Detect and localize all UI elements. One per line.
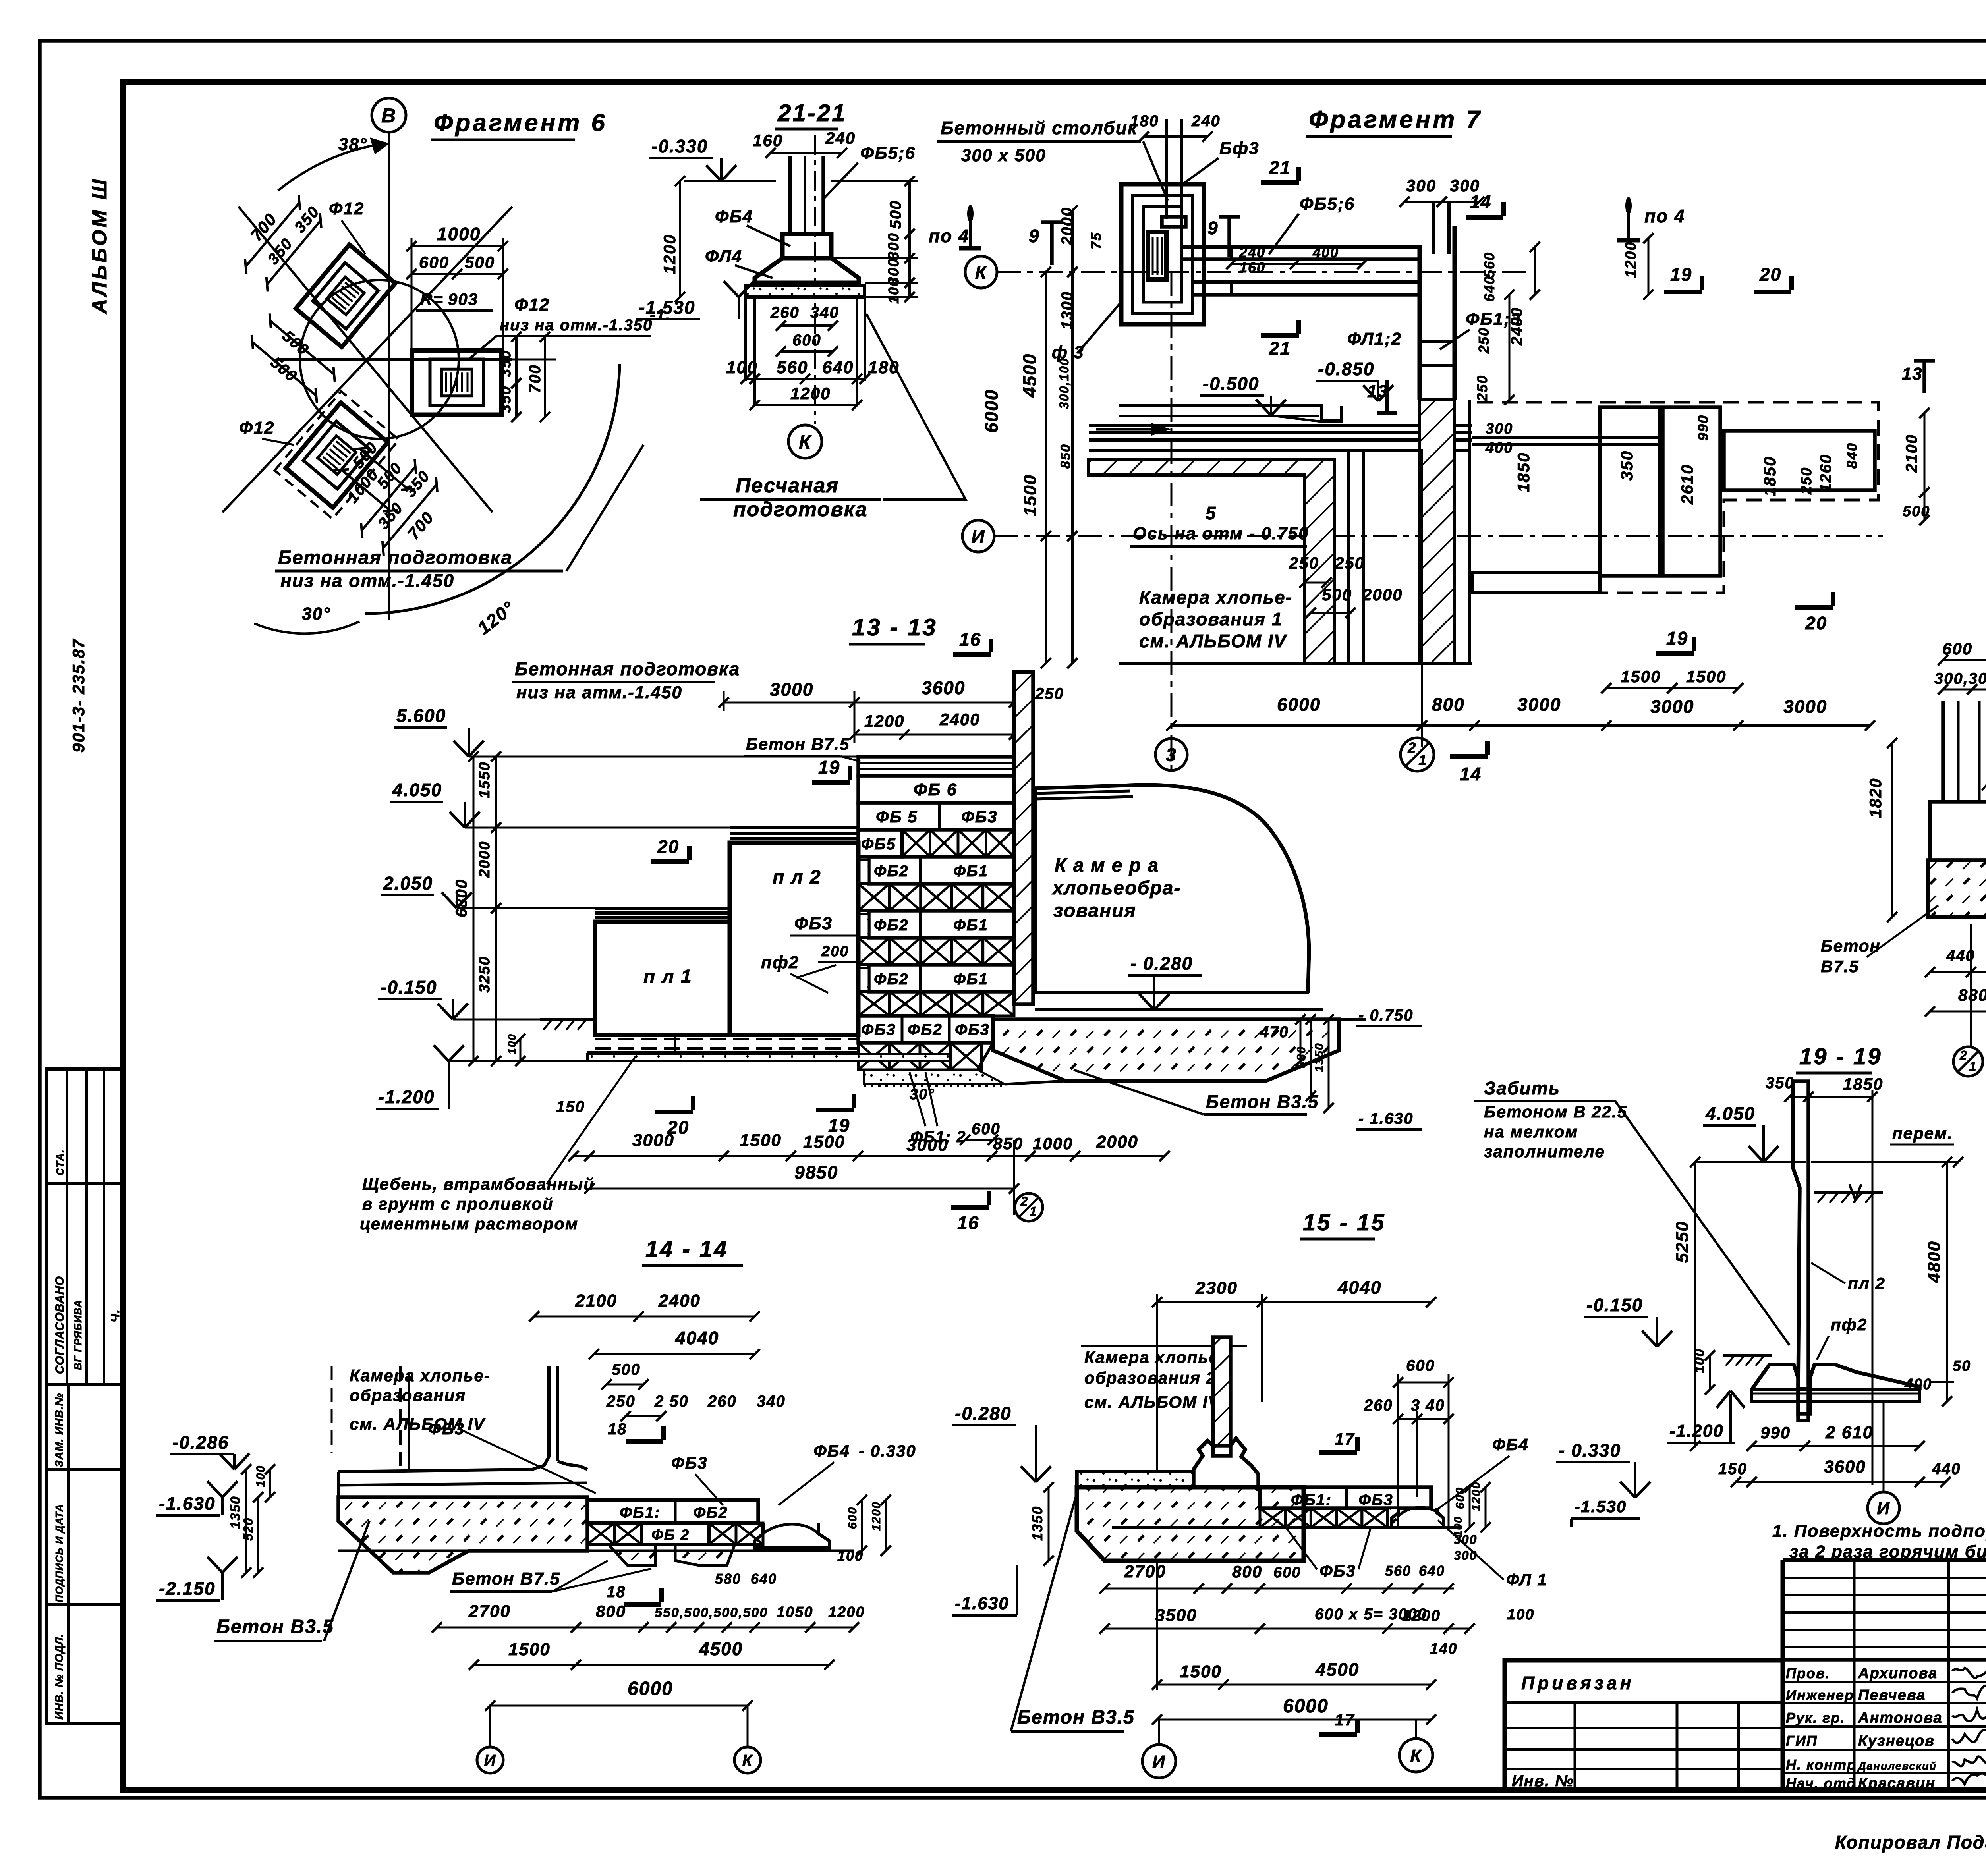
svg-text:Бетоном В 22.5: Бетоном В 22.5: [1484, 1102, 1627, 1121]
svg-text:340: 340: [810, 304, 839, 321]
svg-text:2: 2: [1407, 739, 1416, 756]
fragment 6 dim 1000/600/500 above pad B: [411, 245, 503, 247]
svg-text:100: 100: [1452, 1516, 1464, 1537]
svg-text:1200: 1200: [1470, 1481, 1483, 1511]
svg-text:150: 150: [1718, 1460, 1747, 1478]
svg-text:250: 250: [1289, 554, 1319, 572]
21-21 block FB4: [782, 234, 831, 258]
fragment 7 flow arrow: [1096, 428, 1160, 431]
svg-text:560: 560: [1385, 1563, 1411, 1579]
13-13 block FB6: [858, 776, 1014, 803]
svg-text:- 0.750: - 0.750: [1358, 1007, 1414, 1024]
svg-text:100: 100: [1507, 1606, 1534, 1623]
svg-text:240: 240: [1239, 244, 1265, 261]
svg-text:800: 800: [596, 1602, 626, 1621]
fragment 6 pad foundation A (rotated): [296, 245, 396, 347]
13-13 left wall PL2: [730, 843, 858, 1035]
svg-text:ФБ1; 2: ФБ1; 2: [910, 1128, 966, 1146]
13-13 left vertical dims: [495, 757, 497, 828]
13-13 right vertical dims 880/1350: [1310, 1019, 1312, 1096]
svg-text:5.600: 5.600: [396, 705, 446, 726]
svg-text:см. АЛЬБОМ IV: см. АЛЬБОМ IV: [1084, 1393, 1220, 1411]
svg-text:ФБ4: ФБ4: [813, 1442, 850, 1460]
svg-text:ФБ5: ФБ5: [861, 836, 896, 853]
svg-text:700: 700: [247, 210, 280, 245]
svg-text:150: 150: [556, 1098, 585, 1116]
svg-text:2300: 2300: [1195, 1278, 1238, 1298]
svg-text:К: К: [799, 432, 812, 453]
svg-text:И: И: [1877, 1499, 1890, 1518]
svg-text:ФЛ 1: ФЛ 1: [1506, 1570, 1547, 1589]
svg-text:3250: 3250: [476, 956, 493, 993]
13-13 ground line right: [993, 1018, 1366, 1021]
axis circle B: [372, 98, 406, 132]
svg-text:ПОДПИСЬ И ДАТА: ПОДПИСЬ И ДАТА: [53, 1504, 65, 1602]
21-21 column shaft: [788, 156, 792, 234]
21-21 axis circle K: [788, 425, 822, 458]
fragment 6 radius circle arc: [300, 280, 459, 439]
21-21 centerline: [814, 135, 816, 424]
18-18 left dim 1820: [1891, 743, 1893, 917]
svg-text:Привязан: Привязан: [1521, 1673, 1634, 1693]
svg-text:700: 700: [526, 364, 544, 393]
svg-text:903: 903: [448, 290, 478, 309]
svg-text:Камера хлопье-: Камера хлопье-: [1084, 1348, 1225, 1366]
18-18 axis circle 2/1: [1953, 1047, 1983, 1076]
15-15 left slab dotted band: [1077, 1471, 1194, 1487]
svg-text:1200: 1200: [828, 1604, 865, 1621]
svg-text:2000: 2000: [476, 841, 493, 878]
svg-text:1200: 1200: [790, 384, 831, 403]
svg-text:ФБ3: ФБ3: [794, 914, 833, 933]
15-15 central pillar hatched: [1213, 1337, 1231, 1456]
fragment 7 long slab band: [1089, 424, 1472, 427]
svg-text:ФБ2: ФБ2: [874, 917, 909, 934]
svg-text:9850: 9850: [794, 1162, 838, 1183]
svg-text:В: В: [381, 104, 396, 127]
marker po 4 right: [1627, 199, 1630, 240]
svg-text:350: 350: [497, 350, 514, 377]
svg-text:Ч.: Ч.: [109, 1309, 122, 1322]
svg-text:600: 600: [419, 253, 449, 272]
svg-text:250: 250: [1476, 327, 1492, 354]
fragment 6 pad foundation B: [412, 350, 502, 415]
svg-text:21: 21: [1269, 338, 1291, 359]
svg-text:2: 2: [1020, 1194, 1029, 1208]
svg-text:ФБ3: ФБ3: [955, 1021, 990, 1038]
svg-text:640: 640: [751, 1571, 777, 1587]
21-21 leader triangle to note: [866, 314, 966, 500]
svg-text:1200: 1200: [660, 234, 679, 274]
svg-text:-1.630: -1.630: [955, 1594, 1009, 1613]
svg-text:19 - 19: 19 - 19: [1799, 1044, 1882, 1069]
svg-text:4040: 4040: [675, 1328, 719, 1348]
svg-text:2100: 2100: [1903, 434, 1920, 473]
svg-text:1350: 1350: [1029, 1506, 1045, 1541]
svg-text:250: 250: [1334, 554, 1365, 572]
svg-text:300: 300: [1454, 1548, 1477, 1563]
18-18 hatched block: [1928, 860, 1986, 917]
svg-text:Кузнецов: Кузнецов: [1858, 1733, 1935, 1749]
13-13 block FB5 + X row: [858, 830, 902, 857]
svg-text:Ось на отм - 0.750: Ось на отм - 0.750: [1133, 524, 1309, 543]
fragment 7 flag 21 top: [1261, 180, 1299, 185]
svg-text:2: 2: [1959, 1048, 1968, 1063]
svg-text:75: 75: [1088, 232, 1104, 249]
svg-text:13 - 13: 13 - 13: [852, 614, 937, 641]
svg-text:1850: 1850: [1514, 452, 1533, 492]
svg-text:580: 580: [715, 1571, 741, 1587]
svg-text:1500: 1500: [1621, 667, 1661, 686]
14-14 lower hatched pockets: [609, 1544, 655, 1565]
svg-text:14: 14: [1460, 764, 1482, 784]
svg-text:240: 240: [825, 129, 856, 147]
fragment 6 dim chain upper-left 700/350/350/500/500: [189, 184, 413, 406]
svg-text:ФБ2: ФБ2: [874, 863, 909, 880]
svg-text:2700: 2700: [1124, 1562, 1166, 1581]
fragment 6 vertical dims 350/350/700 right of pad B: [515, 337, 518, 383]
svg-text:2000: 2000: [1362, 585, 1403, 604]
svg-text:350: 350: [497, 386, 514, 413]
13-13 flag 16 bottom + 2/1 circle: [951, 1205, 989, 1210]
svg-text:3: 3: [1166, 745, 1177, 765]
svg-text:ФБ 5: ФБ 5: [876, 807, 918, 826]
svg-text:К а м е р а: К а м е р а: [1055, 855, 1159, 876]
14-14 base line: [338, 1550, 854, 1552]
svg-text:ФБ3: ФБ3: [671, 1453, 708, 1472]
15-15 pedestal mound: [1194, 1438, 1258, 1487]
svg-text:п л 2: п л 2: [773, 867, 821, 888]
svg-text:ИНВ. № ПОДЛ.: ИНВ. № ПОДЛ.: [53, 1633, 65, 1720]
svg-text:-0.500: -0.500: [1203, 373, 1259, 394]
15-15 right rotated dims: [1469, 1487, 1471, 1527]
fragment 7 flags 19/20 top-right: [1664, 290, 1702, 294]
fragment 6 dim chain 500/500/1000 diagonal: [326, 435, 420, 528]
fragment 7 dim 1500/1500: [1606, 687, 1672, 689]
svg-text:1200: 1200: [864, 712, 904, 730]
fragment 7 axis I line: [994, 535, 1883, 537]
svg-text:6000: 6000: [1283, 1696, 1329, 1717]
svg-text:ФБ 2: ФБ 2: [651, 1527, 690, 1544]
svg-text:Щебень, втрамбованный: Щебень, втрамбованный: [362, 1175, 595, 1193]
svg-text:1550: 1550: [476, 761, 493, 798]
13-13 X block row: [858, 938, 889, 965]
svg-text:ФБ 6: ФБ 6: [914, 780, 957, 799]
svg-text:1200: 1200: [1402, 1607, 1441, 1625]
fragment 7 flag 14 bottom: [1450, 754, 1488, 759]
svg-text:Бетон В3.5: Бетон В3.5: [1206, 1091, 1319, 1112]
13-13 flags 19/20 mid: [812, 780, 850, 785]
svg-text:19: 19: [818, 757, 840, 778]
svg-text:300,100: 300,100: [1057, 357, 1071, 409]
svg-text:3600: 3600: [922, 677, 965, 698]
fragment 7 concrete column top: [1165, 119, 1168, 219]
svg-text:низ на отм.-1.350: низ на отм.-1.350: [500, 317, 653, 334]
svg-text:Ф12: Ф12: [239, 418, 274, 438]
svg-text:19: 19: [1670, 264, 1692, 285]
svg-text:20: 20: [1759, 264, 1781, 285]
15-15 small hatch bit: [1387, 1508, 1398, 1527]
svg-text:4.050: 4.050: [1705, 1103, 1755, 1124]
svg-text:Инженер: Инженер: [1786, 1687, 1854, 1703]
svg-text:2.050: 2.050: [383, 873, 433, 894]
svg-text:250: 250: [1798, 467, 1815, 495]
fragment 7 L-shaped hatched duct band: [1089, 460, 1334, 663]
svg-text:1500: 1500: [508, 1640, 551, 1659]
18-18 mid block: [1930, 802, 1986, 860]
svg-text:550,500,500,500: 550,500,500,500: [655, 1605, 768, 1620]
13-13 flag 16 top: [953, 652, 991, 657]
svg-text:ФБ1:: ФБ1:: [620, 1504, 661, 1521]
13-13 blocks FB2 FB1: [869, 911, 1014, 938]
svg-text:Ф12: Ф12: [514, 295, 550, 315]
svg-text:Камера хлопье-: Камера хлопье-: [1139, 587, 1292, 608]
svg-text:350: 350: [1766, 1074, 1795, 1092]
svg-text:Архипова: Архипова: [1858, 1665, 1938, 1682]
svg-text:К: К: [1410, 1746, 1422, 1766]
fragment 7 axis K circle: [965, 256, 997, 288]
15-15 dim 1350 rotated: [1048, 1487, 1050, 1561]
svg-text:п л 1: п л 1: [643, 966, 692, 987]
svg-text:20: 20: [657, 836, 679, 857]
svg-text:300: 300: [1486, 421, 1513, 437]
svg-text:Антонова: Антонова: [1858, 1710, 1943, 1726]
21-21 trapezoid FL4: [755, 258, 859, 283]
19-19 ground hatch right of wall: [1814, 1191, 1883, 1194]
svg-text:1500: 1500: [1180, 1662, 1222, 1681]
svg-text:600: 600: [1406, 1357, 1435, 1374]
13-13 blocks FB5 FB3: [858, 803, 1014, 830]
svg-text:880: 880: [1958, 986, 1986, 1004]
svg-text:-1.530: -1.530: [1575, 1497, 1627, 1516]
fragment 7 mid slab step: [1119, 406, 1342, 421]
svg-text:1: 1: [1418, 752, 1427, 768]
svg-text:Бетонный столбик: Бетонный столбик: [941, 118, 1138, 138]
svg-text:840: 840: [1844, 442, 1860, 469]
svg-text:5: 5: [1206, 503, 1217, 523]
19-19 ground hatch left of footing: [1723, 1354, 1772, 1357]
svg-text:Певчева: Певчева: [1858, 1687, 1926, 1704]
14-14 ground mass hatched: [338, 1497, 587, 1573]
svg-text:160: 160: [1239, 259, 1265, 276]
svg-text:9: 9: [1207, 218, 1219, 238]
svg-text:1: 1: [1030, 1204, 1037, 1219]
13-13 blocks FB2 FB1: [869, 965, 1014, 992]
svg-text:И: И: [971, 526, 985, 547]
13-13 flags 20/19 bottom: [655, 1110, 693, 1114]
svg-text:ФЛ1;2: ФЛ1;2: [1347, 329, 1402, 349]
13-13 wall right hatched (vertical): [1014, 672, 1033, 1004]
21-21 pit dims 260/340/600: [744, 297, 747, 381]
14-14 right footing FL1: [755, 1523, 829, 1548]
fragment 7 axis I circle: [962, 520, 994, 552]
svg-text:20: 20: [1805, 613, 1827, 633]
svg-text:ФБ5;6: ФБ5;6: [860, 143, 916, 163]
svg-text:300,300: 300,300: [1934, 670, 1986, 687]
svg-text:-1.630: -1.630: [159, 1493, 215, 1514]
svg-text:пф2: пф2: [1831, 1315, 1867, 1334]
svg-text:500: 500: [465, 253, 495, 272]
svg-text:13: 13: [1902, 364, 1923, 384]
fragment 6 vertical axis line: [388, 132, 390, 620]
13-13 ground hatched mass right: [993, 1019, 1339, 1081]
svg-text:-0.330: -0.330: [651, 136, 708, 156]
svg-text:В7.5: В7.5: [1821, 957, 1859, 976]
svg-text:640: 640: [1419, 1563, 1445, 1579]
svg-text:2 610: 2 610: [1825, 1423, 1873, 1442]
svg-text:хлопьеобра-: хлопьеобра-: [1051, 878, 1181, 899]
svg-text:6800: 6800: [453, 879, 470, 917]
svg-text:700: 700: [404, 508, 438, 543]
svg-text:2400: 2400: [939, 710, 980, 729]
svg-text:3000: 3000: [770, 679, 813, 700]
svg-text:600: 600: [1454, 1487, 1467, 1509]
svg-text:Бф3: Бф3: [1219, 139, 1260, 158]
svg-text:К: К: [742, 1752, 753, 1769]
13-13 top beton band: [858, 757, 1014, 776]
svg-text:3000: 3000: [1517, 694, 1561, 715]
svg-text:СОГЛАСОВАНО: СОГЛАСОВАНО: [53, 1276, 66, 1374]
svg-text:ЗАМ. ИНВ.№: ЗАМ. ИНВ.№: [53, 1393, 65, 1467]
svg-text:3000: 3000: [1783, 696, 1827, 717]
title block: row lines: [1783, 1658, 1986, 1662]
svg-text:4800: 4800: [1924, 1241, 1944, 1283]
svg-text:400: 400: [1904, 1376, 1932, 1393]
14-14 axis circles I K: [477, 1747, 503, 1773]
svg-text:Инв. №: Инв. №: [1512, 1772, 1574, 1790]
svg-text:Фрагмент 6: Фрагмент 6: [434, 109, 607, 137]
svg-text:100: 100: [885, 278, 902, 304]
svg-text:16: 16: [957, 1212, 979, 1233]
title block: column lines: [1853, 1560, 1856, 1790]
svg-text:470: 470: [1260, 1023, 1289, 1041]
svg-text:800: 800: [1432, 694, 1465, 715]
15-15 axis circles I K: [1142, 1745, 1176, 1778]
svg-text:21-21: 21-21: [777, 100, 846, 126]
svg-text:5250: 5250: [1673, 1221, 1692, 1263]
svg-text:-1.200: -1.200: [1669, 1421, 1724, 1441]
svg-text:Бетонная подготовка: Бетонная подготовка: [515, 658, 740, 679]
svg-text:3 40: 3 40: [1411, 1397, 1445, 1414]
svg-text:ФБ4: ФБ4: [715, 207, 753, 226]
15-15 right footing FL1 dome: [1392, 1508, 1443, 1527]
svg-text:ФБ2: ФБ2: [693, 1504, 728, 1521]
svg-text:2 50: 2 50: [654, 1393, 689, 1410]
svg-text:9: 9: [1029, 226, 1040, 246]
svg-text:Фрагмент 7: Фрагмент 7: [1309, 106, 1482, 133]
svg-text:ФБ1: ФБ1: [953, 863, 988, 880]
svg-text:Бетон: Бетон: [1821, 936, 1881, 955]
19-19 footing pedestal: [1752, 1365, 1920, 1414]
svg-text:520: 520: [241, 1517, 255, 1541]
fragment 6 pad foundation C (rotated): [286, 403, 388, 508]
svg-text:по 4: по 4: [929, 226, 970, 246]
svg-text:Бетон В7.5: Бетон В7.5: [452, 1569, 560, 1588]
svg-text:-0.850: -0.850: [1318, 359, 1374, 379]
svg-text:600: 600: [792, 332, 821, 349]
svg-text:300: 300: [1406, 176, 1436, 195]
svg-text:240: 240: [1191, 112, 1221, 130]
svg-text:50: 50: [1953, 1358, 1971, 1374]
svg-text:250: 250: [1035, 685, 1064, 703]
svg-text:1200: 1200: [1623, 241, 1639, 278]
svg-text:800: 800: [1232, 1562, 1262, 1581]
title block: small revision rows: [1783, 1577, 1986, 1579]
fragment 7 top-left box structure: [1121, 184, 1204, 324]
13-13 sand under stack: [864, 1070, 1005, 1084]
svg-text:300: 300: [885, 232, 902, 260]
19-19 wall PL2: [1793, 1081, 1808, 1421]
19-19 dim 4800 rotated: [1946, 1162, 1948, 1401]
svg-text:250: 250: [1474, 375, 1490, 401]
svg-text:1300: 1300: [1059, 291, 1076, 330]
svg-text:990: 990: [1760, 1423, 1791, 1442]
svg-text:-2.150: -2.150: [159, 1578, 215, 1599]
svg-text:1200: 1200: [870, 1501, 883, 1531]
19-19 base slab: [1752, 1390, 1920, 1401]
svg-text:ФБ3: ФБ3: [1358, 1491, 1393, 1509]
svg-text:140: 140: [1430, 1641, 1457, 1657]
svg-text:14 - 14: 14 - 14: [645, 1236, 728, 1262]
svg-text:17: 17: [1335, 1430, 1355, 1448]
svg-text:340: 340: [757, 1393, 786, 1410]
svg-text:- 0.280: - 0.280: [1130, 953, 1193, 974]
svg-text:3000: 3000: [1650, 696, 1694, 717]
fragment 7 flag 19 bottom: [1656, 651, 1694, 656]
svg-text:901-3- 235.87: 901-3- 235.87: [69, 638, 88, 753]
svg-text:Данилевский: Данилевский: [1857, 1760, 1937, 1772]
svg-text:ФБ5;6: ФБ5;6: [1300, 194, 1355, 214]
svg-text:1820: 1820: [1866, 778, 1885, 818]
svg-text:300 х 500: 300 х 500: [961, 146, 1046, 165]
13-13 kamera floor lines: [1035, 991, 1309, 994]
14-14 blocks FB1 FB2 row: [587, 1500, 758, 1523]
19-19 dim 5250 rotated: [1694, 1162, 1696, 1446]
14-14 X row: [587, 1523, 614, 1544]
15-15 blocks row FB1 FB3: [1260, 1487, 1431, 1508]
svg-text:ФБ1: ФБ1: [953, 971, 988, 988]
svg-text:120°: 120°: [473, 597, 518, 638]
svg-text:подготовка: подготовка: [733, 498, 868, 521]
title block: bottom line: [1505, 1788, 1986, 1793]
svg-text:ВГ ГРЯБИВА: ВГ ГРЯБИВА: [72, 1300, 84, 1370]
svg-text:-1.200: -1.200: [378, 1087, 435, 1107]
fragment 7 axis circle 2/1: [1401, 738, 1434, 771]
svg-text:Бетон В3.5: Бетон В3.5: [1017, 1707, 1135, 1728]
svg-text:2000: 2000: [1059, 207, 1076, 246]
svg-text:см. АЛЬБОМ IV: см. АЛЬБОМ IV: [1139, 631, 1287, 651]
svg-text:ФБ3: ФБ3: [1319, 1561, 1356, 1580]
svg-text:100: 100: [837, 1548, 864, 1564]
fragment 7 flag 21 mid: [1261, 333, 1299, 338]
svg-text:260: 260: [770, 304, 800, 321]
svg-text:ФБ1: ФБ1: [953, 917, 988, 934]
fragment 7 flag 20 bottom-right: [1795, 605, 1833, 610]
left margin stamp table upper: [47, 1069, 123, 1385]
svg-text:4500: 4500: [1019, 353, 1040, 398]
21-21 right dim chain 500/300/300/100: [908, 181, 911, 234]
svg-text:образования 1: образования 1: [1139, 609, 1283, 629]
svg-text:850: 850: [1058, 444, 1073, 469]
18-18 column: [1941, 701, 1945, 802]
svg-text:ФБ2: ФБ2: [908, 1021, 943, 1038]
svg-text:500: 500: [887, 200, 904, 229]
21-21 top dim 160/240: [771, 152, 842, 154]
svg-text:14: 14: [1470, 191, 1491, 212]
svg-text:низ на отм.-1.450: низ на отм.-1.450: [280, 570, 454, 591]
19-19 axis circle I: [1868, 1492, 1899, 1524]
fragment 7 right wall top: [1418, 247, 1422, 400]
